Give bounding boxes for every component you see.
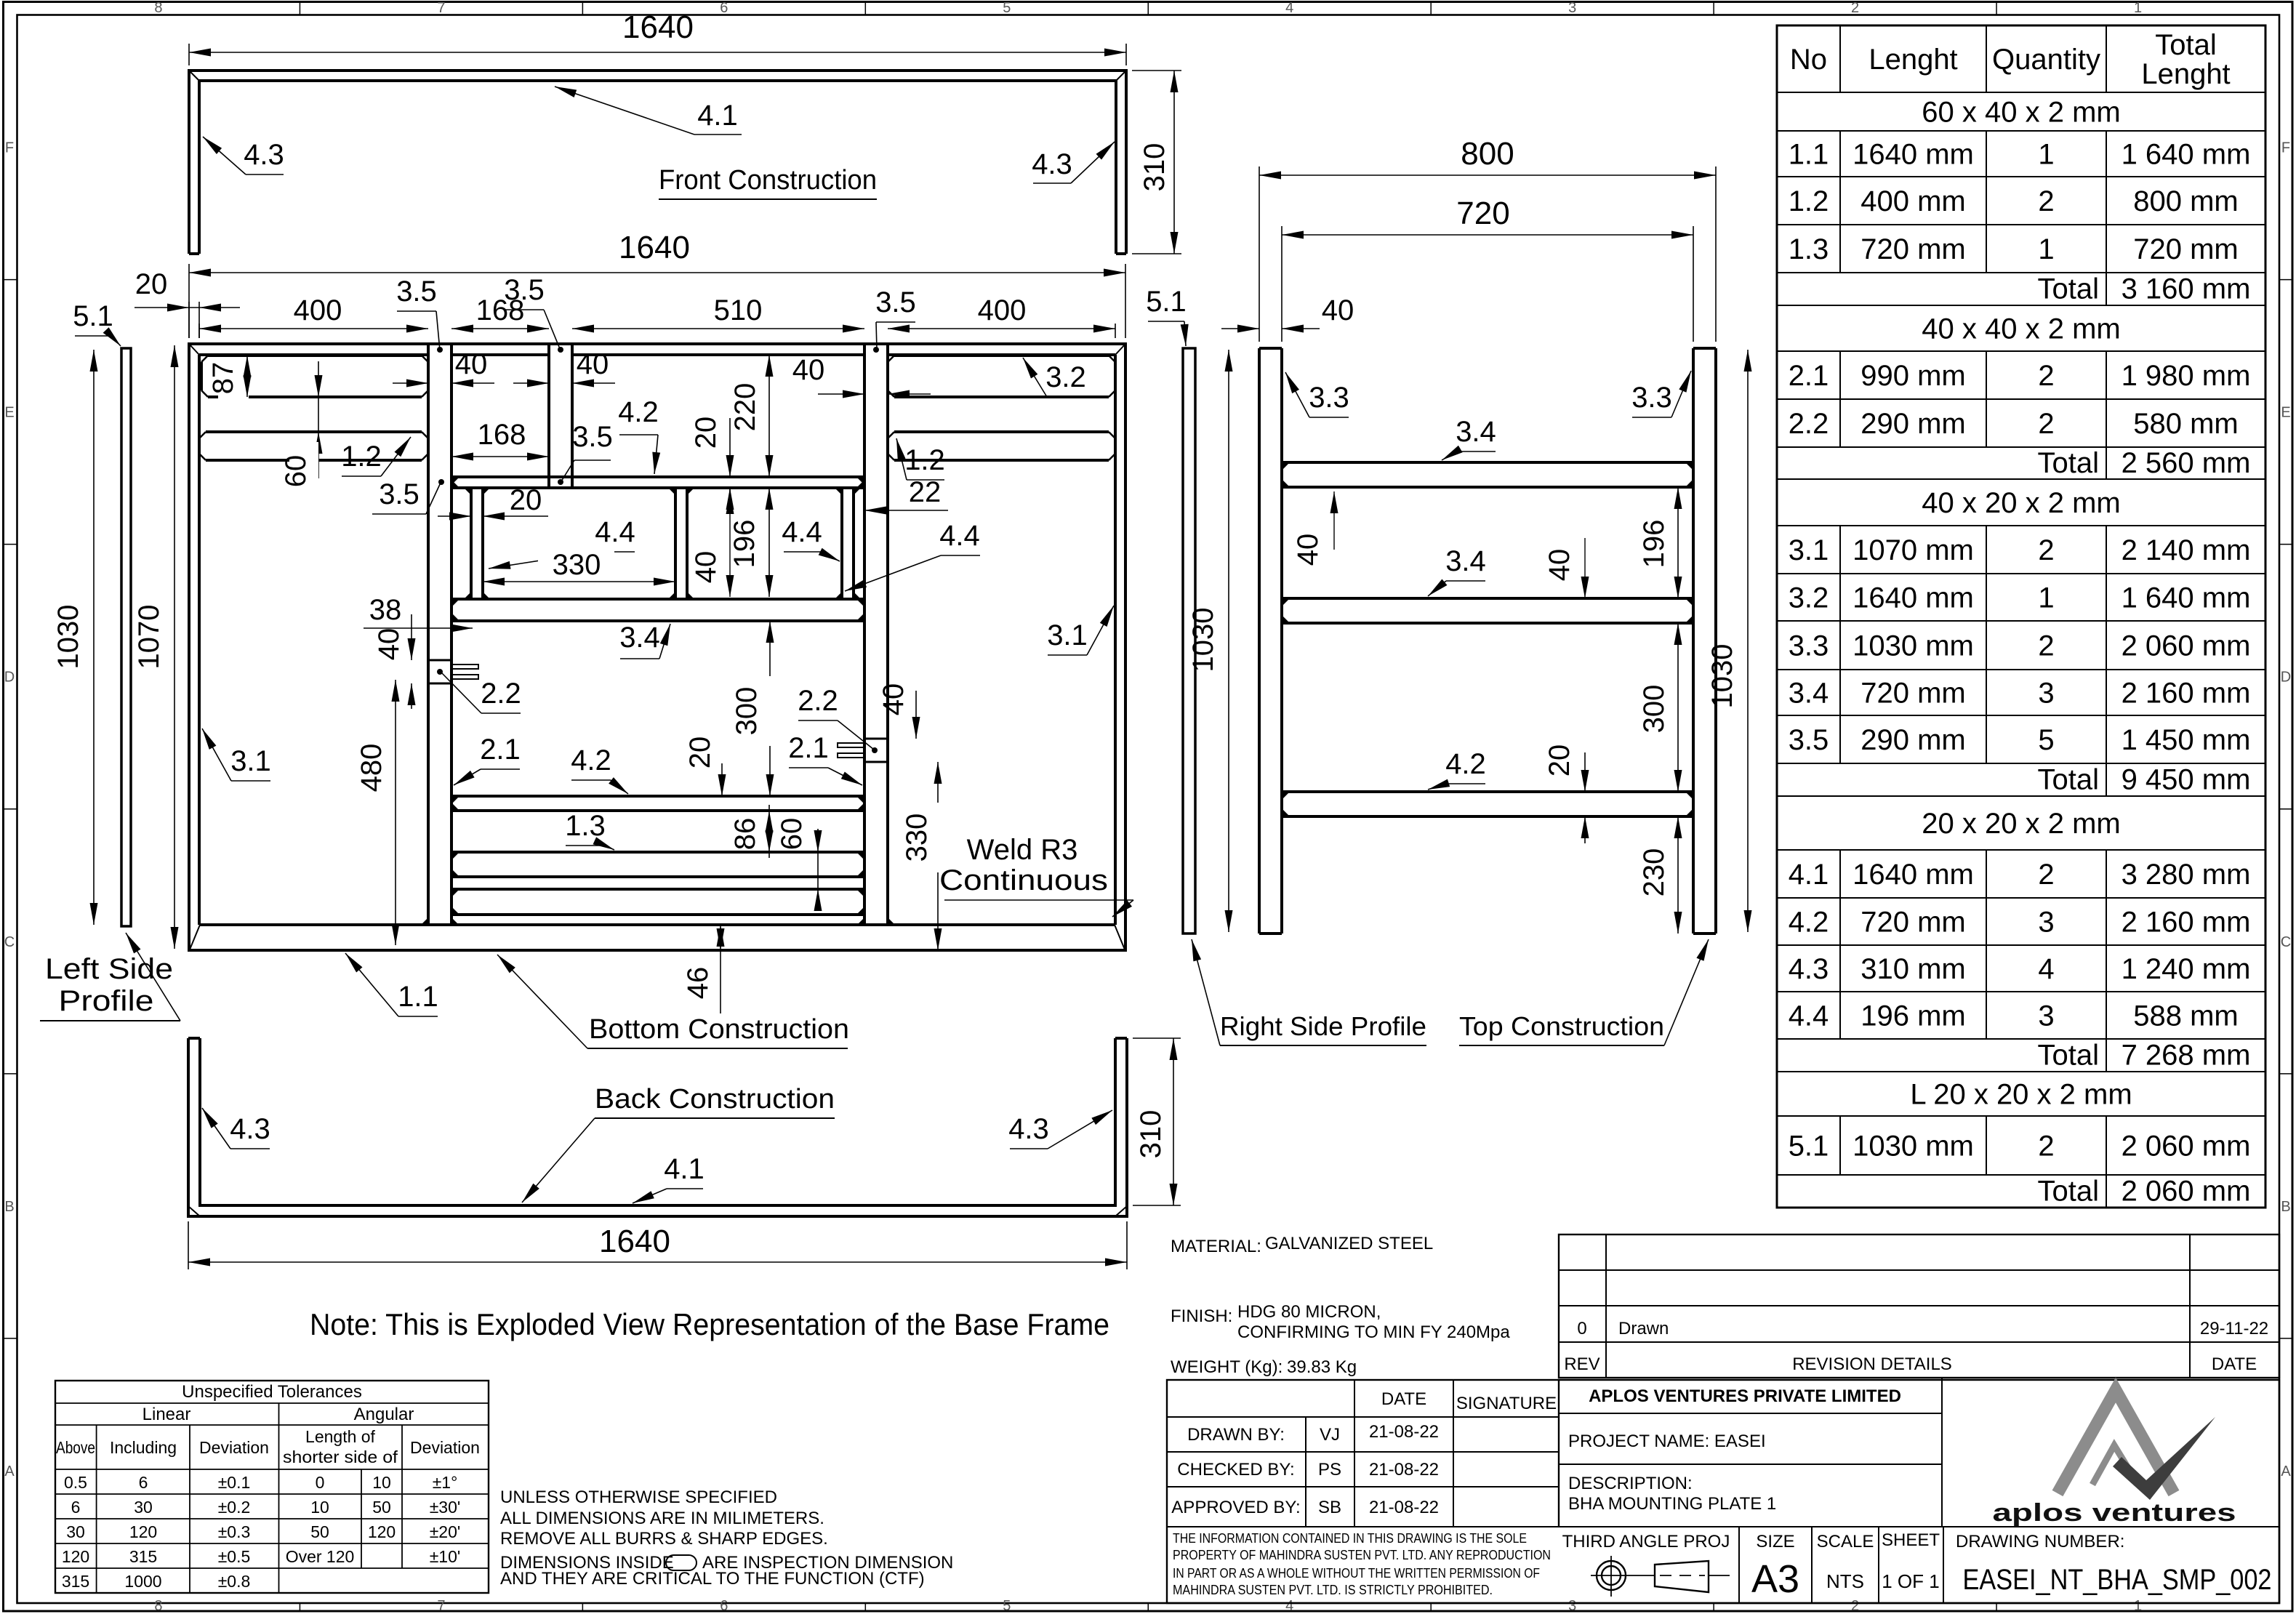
svg-text:400 mm: 400 mm [1861, 185, 1966, 217]
svg-text:1 640 mm: 1 640 mm [2122, 139, 2251, 171]
svg-text:Front Construction: Front Construction [659, 165, 877, 196]
svg-text:NTS: NTS [1826, 1570, 1864, 1592]
svg-text:4.4: 4.4 [782, 516, 822, 548]
svg-text:Angular: Angular [354, 1405, 414, 1424]
third angle symbol [1597, 1561, 1626, 1590]
svg-text:±0.2: ±0.2 [218, 1498, 251, 1517]
svg-text:120: 120 [62, 1547, 89, 1566]
svg-text:1: 1 [2038, 233, 2054, 265]
svg-text:4.3: 4.3 [1032, 148, 1072, 180]
svg-text:Lenght: Lenght [2141, 58, 2230, 90]
svg-text:40 x 40 x 2 mm: 40 x 40 x 2 mm [1922, 313, 2120, 345]
svg-text:1640: 1640 [599, 1224, 670, 1259]
rail below 1.3 [451, 888, 864, 891]
svg-text:2: 2 [1851, 0, 1859, 16]
svg-text:SHEET: SHEET [1882, 1530, 1940, 1550]
svg-text:3.1: 3.1 [1789, 534, 1829, 566]
svg-text:DRAWING NUMBER:: DRAWING NUMBER: [1956, 1532, 2124, 1551]
svg-text:2.1: 2.1 [480, 734, 521, 766]
svg-text:46: 46 [682, 967, 714, 1000]
dim 1640 front [189, 52, 1126, 53]
svg-text:3.3: 3.3 [1789, 630, 1829, 662]
svg-text:2: 2 [2038, 534, 2054, 566]
svg-text:WEIGHT (Kg):: WEIGHT (Kg): [1171, 1357, 1283, 1377]
svg-text:1030: 1030 [1706, 644, 1738, 709]
dim 310 front [1173, 71, 1175, 254]
logo cell divider [1941, 1378, 1943, 1527]
svg-text:THIRD ANGLE PROJ: THIRD ANGLE PROJ [1562, 1532, 1730, 1551]
svg-text:1: 1 [2038, 139, 2054, 171]
svg-text:Bottom Construction: Bottom Construction [589, 1014, 849, 1045]
svg-text:2 060 mm: 2 060 mm [2122, 1176, 2251, 1208]
crossbar 4.2 c [1282, 790, 1693, 793]
zone ticks [299, 2, 300, 15]
cut list table [1777, 25, 2265, 1208]
svg-text:40: 40 [690, 551, 722, 584]
svg-text:2 160 mm: 2 160 mm [2122, 678, 2251, 710]
svg-text:2: 2 [2038, 1131, 2054, 1163]
left side profile bar 5.1 [121, 348, 131, 926]
svg-text:5: 5 [1003, 1598, 1011, 1614]
svg-text:3.5: 3.5 [875, 286, 916, 318]
svg-text:PS: PS [1318, 1460, 1341, 1479]
tube 87 left bay [208, 354, 422, 357]
svg-text:7 268 mm: 7 268 mm [2122, 1040, 2251, 1072]
svg-text:30: 30 [134, 1498, 153, 1517]
svg-text:D: D [2281, 670, 2291, 686]
svg-text:E: E [4, 405, 14, 421]
svg-text:±1°: ±1° [433, 1473, 458, 1492]
svg-text:3.1: 3.1 [230, 745, 271, 777]
svg-text:10: 10 [310, 1498, 329, 1517]
svg-text:A: A [4, 1464, 15, 1479]
svg-text:1640: 1640 [622, 9, 694, 45]
svg-text:3 160 mm: 3 160 mm [2122, 273, 2251, 305]
svg-text:220: 220 [729, 383, 761, 432]
dim 40 at A [393, 382, 428, 384]
revision table [1559, 1234, 2279, 1378]
svg-text:Right Side Profile: Right Side Profile [1220, 1011, 1426, 1041]
svg-text:±0.1: ±0.1 [218, 1473, 251, 1492]
dim 196 [768, 488, 770, 597]
svg-text:3.4: 3.4 [1445, 545, 1486, 577]
svg-text:588 mm: 588 mm [2133, 1000, 2239, 1032]
dim 1640 back [188, 1261, 1127, 1263]
svg-text:PROJECT NAME: EASEI: PROJECT NAME: EASEI [1568, 1432, 1766, 1451]
svg-text:315: 315 [129, 1547, 157, 1566]
svg-text:10: 10 [372, 1473, 391, 1492]
crossbar 3.4 b [1282, 597, 1693, 600]
svg-text:Back Construction: Back Construction [595, 1084, 835, 1115]
svg-text:1030 mm: 1030 mm [1853, 630, 1974, 662]
svg-text:Unspecified Tolerances: Unspecified Tolerances [182, 1382, 362, 1402]
svg-text:2 140 mm: 2 140 mm [2122, 534, 2251, 566]
svg-text:3.3: 3.3 [1309, 382, 1349, 414]
dim 330 right [937, 762, 939, 950]
svg-text:4: 4 [1285, 1598, 1293, 1614]
svg-text:5.1: 5.1 [1146, 286, 1187, 318]
svg-text:20: 20 [684, 736, 716, 769]
svg-text:20 x 20 x 2 mm: 20 x 20 x 2 mm [1922, 808, 2120, 840]
svg-text:5.1: 5.1 [73, 300, 113, 332]
svg-text:1.1: 1.1 [398, 981, 438, 1013]
svg-text:60: 60 [776, 818, 808, 851]
svg-text:4.2: 4.2 [618, 396, 659, 428]
svg-text:Total: Total [2038, 1176, 2100, 1208]
dim 196 tc [1677, 487, 1679, 598]
rail end weld wedges [451, 796, 459, 804]
svg-text:Lenght: Lenght [1868, 44, 1957, 76]
svg-text:FINISH:: FINISH: [1171, 1306, 1232, 1326]
svg-text:21-08-22: 21-08-22 [1369, 1498, 1439, 1517]
dim 480 [395, 680, 396, 945]
dim 1070 main view height [174, 345, 175, 949]
svg-text:1 OF 1: 1 OF 1 [1882, 1570, 1939, 1592]
svg-text:20: 20 [135, 268, 168, 300]
svg-text:2.2: 2.2 [1789, 408, 1829, 440]
dim 40 clip C [915, 691, 917, 739]
svg-text:Deviation: Deviation [410, 1438, 480, 1457]
clip 2.2 on A [428, 659, 451, 662]
svg-text:REMOVE ALL BURRS & SHARP EDGES: REMOVE ALL BURRS & SHARP EDGES. [500, 1529, 828, 1549]
svg-text:0: 0 [316, 1473, 325, 1492]
svg-text:4.4: 4.4 [939, 520, 980, 552]
svg-text:1030 mm: 1030 mm [1853, 1131, 1974, 1163]
svg-text:1 640 mm: 1 640 mm [2122, 582, 2251, 614]
svg-text:±0.3: ±0.3 [218, 1522, 251, 1541]
back construction U tube inner [200, 1038, 1115, 1205]
svg-text:1 240 mm: 1 240 mm [2122, 953, 2251, 985]
rail R2 3.4 [451, 598, 864, 601]
svg-text:400: 400 [294, 294, 342, 326]
clip 2.2 on C [864, 738, 888, 740]
svg-text:310: 310 [1139, 143, 1171, 192]
svg-text:Including: Including [110, 1438, 177, 1457]
svg-text:2: 2 [1851, 1598, 1859, 1614]
svg-text:3.1: 3.1 [1047, 619, 1088, 651]
svg-text:4.1: 4.1 [664, 1153, 705, 1185]
svg-text:E: E [2281, 405, 2290, 421]
tube 87 right bay [894, 354, 1109, 357]
svg-text:PROPERTY OF MAHINDRA SUSTEN PV: PROPERTY OF MAHINDRA SUSTEN PVT. LTD. AN… [1173, 1548, 1551, 1562]
svg-text:1.1: 1.1 [1789, 139, 1829, 171]
svg-text:38: 38 [369, 594, 402, 626]
svg-text:3.2: 3.2 [1789, 582, 1829, 614]
svg-text:DESCRIPTION:: DESCRIPTION: [1568, 1474, 1693, 1493]
svg-text:Total: Total [2155, 29, 2217, 61]
svg-text:1: 1 [2134, 0, 2142, 16]
svg-text:ALL DIMENSIONS ARE IN MILIMETE: ALL DIMENSIONS ARE IN MILIMETERS. [500, 1509, 824, 1528]
rail 1.3 [451, 851, 864, 854]
svg-text:6: 6 [720, 1598, 728, 1614]
svg-text:40: 40 [1292, 534, 1324, 566]
svg-text:300: 300 [1638, 685, 1670, 734]
svg-text:1.2: 1.2 [1789, 185, 1829, 217]
svg-text:Continuous: Continuous [939, 864, 1108, 896]
svg-text:Over 120: Over 120 [286, 1547, 355, 1566]
svg-text:SIZE: SIZE [1756, 1532, 1794, 1551]
svg-text:4: 4 [1285, 0, 1293, 16]
svg-text:40: 40 [792, 354, 825, 386]
svg-text:5.1: 5.1 [1789, 1131, 1829, 1163]
vertical 3.5 B [547, 355, 550, 477]
svg-text:168: 168 [478, 419, 526, 451]
svg-text:2: 2 [2038, 360, 2054, 392]
svg-text:86: 86 [729, 818, 761, 851]
svg-text:APPROVED BY:: APPROVED BY: [1171, 1498, 1300, 1517]
svg-text:720: 720 [1456, 196, 1509, 231]
project name cell [1559, 1464, 1942, 1465]
svg-text:2 060 mm: 2 060 mm [2122, 630, 2251, 662]
dim 40 clip A [411, 614, 412, 660]
svg-text:2 160 mm: 2 160 mm [2122, 907, 2251, 939]
svg-text:Total: Total [2038, 1040, 2100, 1072]
svg-text:1640: 1640 [619, 230, 690, 265]
svg-text:AND THEY ARE CRITICAL TO THE F: AND THEY ARE CRITICAL TO THE FUNCTION (C… [500, 1569, 925, 1589]
svg-text:1.3: 1.3 [565, 810, 606, 842]
svg-text:C: C [4, 934, 15, 950]
svg-text:Total: Total [2038, 764, 2100, 796]
dim 46 [720, 925, 721, 1013]
svg-text:720 mm: 720 mm [1861, 678, 1966, 710]
svg-text:Left Side: Left Side [45, 953, 173, 985]
svg-text:310 mm: 310 mm [1861, 953, 1966, 985]
rail 1.2 right [894, 430, 1109, 433]
dim 400 left [199, 328, 428, 329]
svg-text:SB: SB [1318, 1498, 1341, 1517]
svg-text:1: 1 [2134, 1598, 2142, 1614]
svg-text:60: 60 [280, 455, 312, 488]
svg-text:4.2: 4.2 [1789, 907, 1829, 939]
svg-text:20: 20 [690, 417, 722, 449]
svg-text:DATE: DATE [2212, 1354, 2257, 1374]
svg-text:Quantity: Quantity [1992, 44, 2100, 76]
svg-text:2 560 mm: 2 560 mm [2122, 447, 2251, 479]
svg-text:B: B [2281, 1199, 2290, 1215]
svg-text:6: 6 [720, 0, 728, 16]
svg-text:2: 2 [2038, 630, 2054, 662]
svg-text:±10': ±10' [430, 1547, 461, 1566]
svg-text:330: 330 [901, 814, 933, 862]
dim 20 R1 height [729, 418, 731, 477]
svg-text:DRAWN BY:: DRAWN BY: [1187, 1425, 1285, 1445]
svg-text:THE INFORMATION CONTAINED IN T: THE INFORMATION CONTAINED IN THIS DRAWIN… [1173, 1531, 1527, 1546]
svg-text:2: 2 [2038, 859, 2054, 891]
top rail 3.2 inner line [199, 353, 428, 356]
front construction U tube inner [199, 81, 1116, 254]
svg-text:800: 800 [1461, 136, 1514, 172]
svg-text:120: 120 [129, 1522, 157, 1541]
svg-text:±20': ±20' [430, 1522, 461, 1541]
rail R3 4.2 [451, 795, 864, 798]
dim 310 back [1173, 1038, 1174, 1205]
svg-text:400: 400 [978, 294, 1027, 326]
dim 20 tc [1584, 752, 1586, 792]
svg-text:330: 330 [553, 549, 601, 581]
back construction U tube outer [188, 1038, 1127, 1216]
top construction right vertical 3.3 [1692, 348, 1695, 934]
svg-text:21-08-22: 21-08-22 [1369, 1422, 1439, 1442]
svg-text:50: 50 [310, 1522, 329, 1541]
svg-text:1 980 mm: 1 980 mm [2122, 360, 2251, 392]
svg-text:290 mm: 290 mm [1861, 408, 1966, 440]
svg-text:3.4: 3.4 [619, 622, 660, 654]
svg-text:300: 300 [731, 687, 763, 736]
svg-text:1000: 1000 [124, 1572, 161, 1591]
svg-text:APLOS VENTURES PRIVATE LIMITED: APLOS VENTURES PRIVATE LIMITED [1589, 1386, 1901, 1406]
svg-text:3.5: 3.5 [572, 421, 613, 453]
svg-text:1070: 1070 [133, 605, 165, 670]
svg-text:3.5: 3.5 [379, 478, 420, 510]
svg-text:Drawn: Drawn [1618, 1319, 1669, 1338]
svg-text:SCALE: SCALE [1817, 1532, 1874, 1551]
dim 1030 tc [1747, 350, 1749, 932]
svg-text:0.5: 0.5 [64, 1473, 87, 1492]
svg-text:30: 30 [66, 1522, 85, 1541]
svg-text:3 280 mm: 3 280 mm [2122, 859, 2251, 891]
svg-text:40: 40 [878, 683, 910, 716]
dim 168 mid [451, 456, 549, 457]
svg-text:196 mm: 196 mm [1861, 1000, 1966, 1032]
svg-text:BHA MOUNTING PLATE 1: BHA MOUNTING PLATE 1 [1568, 1494, 1776, 1514]
svg-text:aplos ventures: aplos ventures [1993, 1499, 2236, 1527]
svg-text:1.2: 1.2 [904, 444, 945, 476]
svg-text:SIGNATURE: SIGNATURE [1456, 1394, 1557, 1413]
svg-text:REV: REV [1564, 1354, 1599, 1374]
svg-text:3.4: 3.4 [1456, 416, 1496, 448]
svg-text:40: 40 [373, 628, 405, 661]
svg-text:40: 40 [577, 348, 609, 380]
svg-text:4.1: 4.1 [1789, 859, 1829, 891]
svg-text:GALVANIZED STEEL: GALVANIZED STEEL [1265, 1234, 1433, 1253]
bottom rail 1.1 top line [199, 923, 1115, 926]
svg-text:4.3: 4.3 [1789, 953, 1829, 985]
dim 20 left member [135, 307, 240, 308]
svg-text:UNLESS OTHERWISE SPECIFIED: UNLESS OTHERWISE SPECIFIED [500, 1487, 777, 1507]
svg-text:MAHINDRA SUSTEN PVT. LTD. IS S: MAHINDRA SUSTEN PVT. LTD. IS STRICTLY PR… [1173, 1583, 1493, 1597]
svg-text:C: C [2281, 934, 2291, 950]
svg-text:1: 1 [2038, 582, 2054, 614]
dim 20 band vert width [438, 515, 471, 517]
svg-text:REVISION DETAILS: REVISION DETAILS [1792, 1354, 1952, 1374]
svg-text:B: B [4, 1199, 14, 1215]
svg-text:3: 3 [1568, 1598, 1576, 1614]
svg-text:4.3: 4.3 [1008, 1113, 1049, 1145]
svg-text:310: 310 [1135, 1110, 1167, 1159]
right side profile bar 5.1 [1183, 348, 1195, 934]
left member 3.1 inner line [198, 355, 201, 925]
rail 1.2 left [206, 430, 422, 433]
dim 400 right [888, 328, 1115, 329]
svg-text:29-11-22: 29-11-22 [2200, 1319, 2268, 1338]
svg-text:196: 196 [1638, 520, 1670, 569]
svg-text:L 20 x 20 x 2 mm: L 20 x 20 x 2 mm [1910, 1079, 2132, 1111]
svg-text:4.2: 4.2 [1445, 748, 1486, 780]
svg-text:No: No [1790, 44, 1827, 76]
svg-text:990 mm: 990 mm [1861, 360, 1966, 392]
crossbar 3.4 a [1282, 461, 1693, 464]
dim 1640 main [189, 272, 1125, 273]
svg-text:Top Construction: Top Construction [1459, 1011, 1664, 1041]
svg-text:4: 4 [2038, 953, 2054, 985]
svg-text:40: 40 [455, 348, 488, 380]
dim 38 [364, 627, 473, 629]
main view outer frame [189, 344, 1125, 950]
svg-text:39.83 Kg: 39.83 Kg [1287, 1357, 1357, 1377]
dim 1030 right profile [1228, 350, 1229, 932]
svg-text:1640 mm: 1640 mm [1853, 859, 1974, 891]
svg-text:7: 7 [437, 1598, 445, 1614]
svg-text:5: 5 [1003, 0, 1011, 16]
svg-text:VJ: VJ [1320, 1425, 1340, 1445]
svg-text:4.3: 4.3 [230, 1113, 270, 1145]
svg-text:60 x 40 x 2 mm: 60 x 40 x 2 mm [1922, 97, 2120, 129]
svg-text:0: 0 [1577, 1319, 1586, 1338]
svg-text:4.3: 4.3 [244, 139, 284, 171]
svg-text:3.2: 3.2 [1045, 361, 1086, 393]
middle band verticals 4.4 x3 [470, 488, 473, 599]
svg-text:1 450 mm: 1 450 mm [2122, 724, 2251, 756]
svg-text:20: 20 [1544, 744, 1576, 777]
svg-text:Linear: Linear [143, 1405, 191, 1424]
svg-text:IN PART OR AS A WHOLE WITHOUT: IN PART OR AS A WHOLE WITHOUT THE WRITTE… [1173, 1566, 1540, 1581]
vertical 2.1 C [863, 355, 866, 925]
svg-text:1030: 1030 [1187, 608, 1219, 672]
band vertical joint wedges [464, 488, 471, 495]
svg-text:3: 3 [1568, 0, 1576, 16]
dim 300 [769, 621, 771, 796]
svg-text:1640 mm: 1640 mm [1853, 139, 1974, 171]
dim 1030 left profile [93, 350, 95, 925]
dim 40 at B [513, 382, 549, 384]
svg-text:4.4: 4.4 [1789, 1000, 1829, 1032]
svg-text:3.4: 3.4 [1789, 678, 1829, 710]
dim 40 TC vert width [1221, 328, 1259, 329]
top construction left vertical 3.3 [1258, 348, 1261, 934]
tolerance table [55, 1381, 489, 1593]
svg-text:Profile: Profile [59, 985, 154, 1017]
svg-text:4.4: 4.4 [595, 516, 635, 548]
dim 230 tc [1677, 816, 1679, 934]
svg-text:120: 120 [368, 1522, 396, 1541]
svg-text:3.5: 3.5 [396, 276, 437, 308]
svg-text:2.2: 2.2 [481, 678, 521, 710]
svg-text:230: 230 [1638, 848, 1670, 897]
svg-text:Length of: Length of [305, 1427, 376, 1446]
svg-text:±30': ±30' [430, 1498, 461, 1517]
dim 300 tc [1677, 623, 1679, 792]
svg-text:D: D [4, 670, 15, 686]
svg-text:Note: This is Exploded View Re: Note: This is Exploded View Representati… [310, 1307, 1109, 1341]
dim 510 [572, 328, 864, 329]
front construction U tube outer [189, 71, 1126, 254]
svg-text:1640 mm: 1640 mm [1853, 582, 1974, 614]
vertical 2.1 A [427, 355, 430, 925]
dim 60 lower [817, 829, 819, 911]
svg-text:A: A [2281, 1464, 2291, 1479]
svg-text:2.1: 2.1 [788, 732, 829, 764]
svg-text:Weld R3: Weld R3 [967, 834, 1078, 866]
svg-text:510: 510 [714, 294, 763, 326]
svg-text:3.5: 3.5 [1789, 724, 1829, 756]
svg-text:1070 mm: 1070 mm [1853, 534, 1974, 566]
svg-text:F: F [5, 140, 14, 156]
svg-text:50: 50 [372, 1498, 391, 1517]
svg-text:2 060 mm: 2 060 mm [2122, 1131, 2251, 1163]
svg-text:1.3: 1.3 [1789, 233, 1829, 265]
svg-text:3: 3 [2038, 678, 2054, 710]
svg-text:3: 3 [2038, 1000, 2054, 1032]
